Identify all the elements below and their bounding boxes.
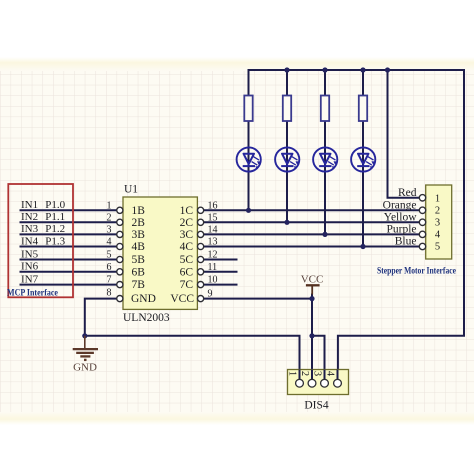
svg-text:ULN2003: ULN2003 [123,312,170,324]
svg-text:P1.3: P1.3 [45,235,65,247]
svg-text:P1.0: P1.0 [45,199,65,211]
svg-text:5: 5 [107,250,112,261]
svg-text:1C: 1C [180,205,194,217]
svg-text:3: 3 [311,371,322,376]
svg-text:MCP Interface: MCP Interface [7,289,58,299]
svg-text:7: 7 [107,275,112,286]
svg-text:3B: 3B [132,229,146,241]
svg-text:5B: 5B [132,254,146,266]
svg-text:3: 3 [107,224,112,235]
svg-text:2: 2 [435,205,440,216]
svg-text:P1.1: P1.1 [45,211,65,223]
svg-text:4: 4 [107,237,112,248]
svg-text:IN1: IN1 [21,199,38,211]
svg-text:GND: GND [131,293,156,305]
svg-text:4: 4 [435,230,441,241]
svg-text:14: 14 [208,224,218,235]
svg-text:1: 1 [107,200,112,211]
svg-text:15: 15 [208,212,218,223]
svg-text:16: 16 [208,200,218,211]
svg-text:4B: 4B [132,241,146,253]
svg-text:6B: 6B [132,266,146,278]
svg-text:4C: 4C [180,241,194,253]
svg-text:11: 11 [208,262,218,273]
svg-text:9: 9 [208,289,213,300]
svg-text:Red: Red [398,187,417,199]
svg-text:6C: 6C [180,266,194,278]
svg-text:Stepper Motor Interface: Stepper Motor Interface [377,266,456,276]
svg-text:1: 1 [435,193,440,204]
svg-text:2C: 2C [180,217,194,229]
svg-text:2B: 2B [132,217,146,229]
svg-text:IN2: IN2 [21,211,38,223]
svg-text:7C: 7C [180,279,194,291]
svg-text:Blue: Blue [395,236,417,248]
svg-text:Purple: Purple [386,223,416,235]
svg-text:Yellow: Yellow [384,211,417,223]
svg-text:1B: 1B [132,205,146,217]
svg-text:U1: U1 [124,183,138,195]
svg-text:IN4: IN4 [21,235,39,247]
svg-text:IN5: IN5 [21,248,39,260]
svg-text:IN6: IN6 [21,261,39,273]
svg-text:12: 12 [208,250,218,261]
svg-text:8: 8 [107,287,112,298]
svg-text:Orange: Orange [383,199,417,211]
svg-text:3C: 3C [180,229,194,241]
svg-text:1: 1 [286,371,297,376]
svg-text:4: 4 [324,371,335,377]
svg-text:VCC: VCC [301,274,324,286]
svg-text:IN3: IN3 [21,223,39,235]
svg-text:13: 13 [208,237,218,248]
svg-text:3: 3 [435,217,440,228]
svg-text:VCC: VCC [170,293,194,305]
svg-text:5C: 5C [180,254,194,266]
svg-text:10: 10 [208,275,218,286]
svg-text:5: 5 [435,242,440,253]
svg-text:DIS4: DIS4 [304,400,329,412]
svg-text:7B: 7B [132,279,146,291]
svg-text:GND: GND [73,361,97,373]
svg-text:2: 2 [299,371,310,376]
svg-text:6: 6 [107,262,112,273]
svg-text:IN7: IN7 [21,273,39,285]
svg-text:P1.2: P1.2 [45,223,65,235]
svg-text:2: 2 [107,212,112,223]
